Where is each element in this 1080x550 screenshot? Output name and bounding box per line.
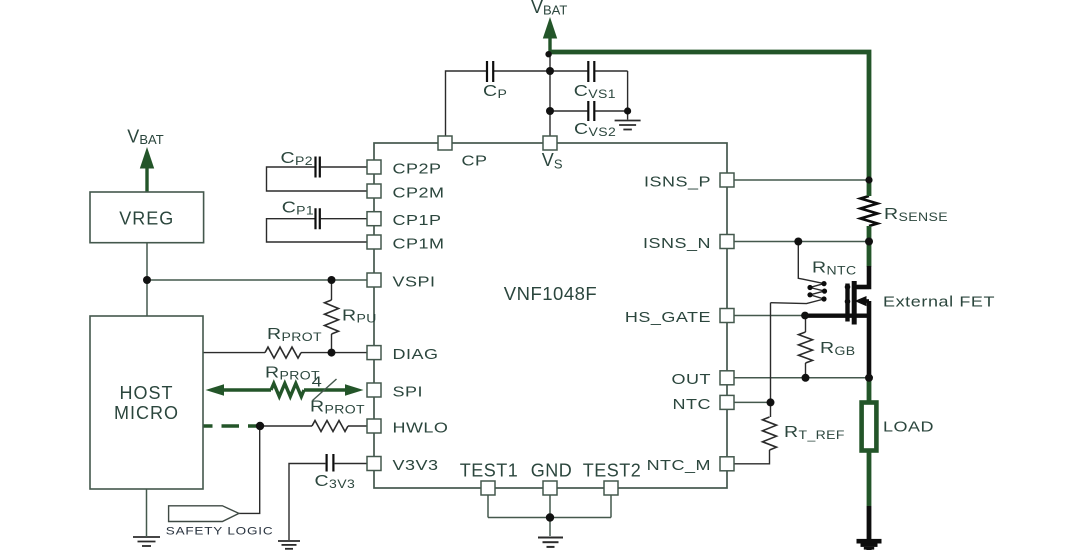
svg-text:NTC_M: NTC_M <box>647 457 711 473</box>
svg-text:CP: CP <box>462 153 488 169</box>
svg-text:VNF1048F: VNF1048F <box>504 283 597 304</box>
svg-text:V3V3: V3V3 <box>392 457 438 473</box>
svg-text:MICRO: MICRO <box>114 403 179 423</box>
svg-text:NTC: NTC <box>673 396 711 412</box>
svg-text:SAFETY LOGIC: SAFETY LOGIC <box>166 525 274 538</box>
svg-text:External FET: External FET <box>883 294 995 310</box>
svg-text:DIAG: DIAG <box>392 346 438 362</box>
svg-text:CP1P: CP1P <box>392 212 441 228</box>
svg-text:VSPI: VSPI <box>392 274 435 290</box>
svg-text:CP1M: CP1M <box>392 236 444 252</box>
svg-text:HS_GATE: HS_GATE <box>625 309 711 325</box>
svg-text:CP2M: CP2M <box>392 185 444 201</box>
svg-text:4: 4 <box>312 373 323 390</box>
svg-text:HOST: HOST <box>119 383 173 403</box>
svg-text:LOAD: LOAD <box>883 419 934 435</box>
svg-text:HWLO: HWLO <box>392 420 448 436</box>
svg-text:ISNS_N: ISNS_N <box>643 235 711 251</box>
svg-text:GND: GND <box>531 461 573 481</box>
svg-text:CP2P: CP2P <box>392 161 441 177</box>
svg-text:SPI: SPI <box>392 384 422 400</box>
svg-text:ISNS_P: ISNS_P <box>644 174 711 190</box>
svg-text:VBAT: VBAT <box>531 0 567 18</box>
svg-text:TEST2: TEST2 <box>583 461 642 481</box>
svg-text:TEST1: TEST1 <box>460 461 519 481</box>
svg-text:VREG: VREG <box>119 209 174 229</box>
svg-text:OUT: OUT <box>672 371 711 387</box>
